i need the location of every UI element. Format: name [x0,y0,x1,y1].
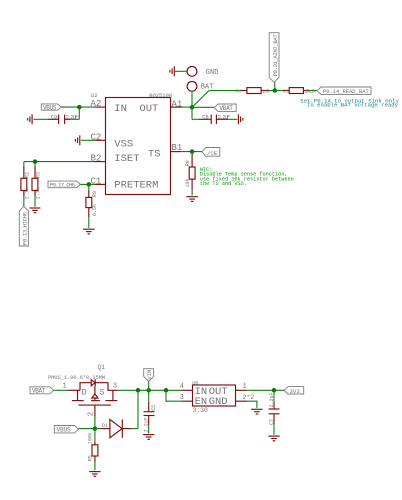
flag P0.14_READ_BAT [317,87,371,95]
svg-text:D: D [82,388,87,398]
wire A1 to node [181,106,192,108]
pin 1 OUT [236,383,247,391]
svg-text:2.7k: 2.7k [36,187,42,199]
wire OUT to 3V3 [247,389,285,391]
flag VBAT [192,104,236,112]
diode D1 [95,419,138,437]
svg-text:C1: C1 [90,177,101,187]
svg-text:2: 2 [87,412,95,416]
wire Q1 pin3 to U6 [118,389,181,391]
wire BAT sense row [209,90,241,92]
ground at U6 [251,409,262,414]
node junction gate [93,426,98,431]
wire diagonal A1 up right [192,91,209,108]
svg-text:2.2uF: 2.2uF [66,114,79,120]
ground at C9 (left-pointing) [28,114,32,124]
node junction B2 [33,159,38,164]
capacitor C8 [192,107,237,124]
svg-text:100k: 100k [88,432,94,444]
resistor R6 10k [283,88,316,95]
svg-text:1: 1 [63,382,67,390]
ground at pin C2 (left-pointing) [75,135,94,145]
wire VBUS to gate node [78,428,95,430]
svg-text:3V3: 3V3 [290,388,301,395]
svg-text:R8: R8 [185,160,191,166]
svg-text:IN: IN [114,103,127,115]
svg-text:R2: R2 [24,172,30,178]
node junction diode riser [136,388,141,393]
node junction 3V3 [272,388,277,393]
testpoint GND circle [175,66,218,77]
svg-text:VBUS: VBUS [57,427,71,434]
note Set P0.14 text [300,97,399,108]
svg-text:3: 3 [180,394,184,402]
svg-text:2.2uF: 2.2uF [269,392,275,407]
svg-text:C2: C2 [90,132,101,142]
svg-text:/CE: /CE [207,150,218,157]
capacitor C7 2.2uF [269,390,280,435]
svg-text:ISET: ISET [114,153,139,165]
pin C2 [90,132,105,142]
node junction A1 [190,105,195,110]
node junction AIN7 [273,88,278,93]
flag 3V3 [284,387,304,395]
svg-text:C7: C7 [269,419,275,425]
pin 4 IN [180,383,193,391]
svg-text:P0.17_CHG: P0.17_CHG [50,182,75,189]
svg-text:R4: R4 [235,89,241,95]
svg-text:the TS and VSS.: the TS and VSS. [200,181,247,187]
ground below C5 [143,435,154,440]
svg-text:OUT: OUT [139,103,158,115]
svg-text:R5: R5 [88,455,94,461]
svg-text:2.7k: 2.7k [24,187,30,199]
svg-text:10k_1%: 10k_1% [304,89,315,95]
svg-text:VBUS: VBUS [43,104,57,111]
svg-text:VSS: VSS [114,138,133,150]
wire P0.17_CHG to pin C1 [80,183,94,185]
svg-text:2.2uF: 2.2uF [218,114,231,120]
node junction C1 [87,182,92,187]
transistor Q1 PMOS [48,364,118,417]
flag VIN (vertical, points down) [144,369,154,391]
flag VBUS [41,104,61,111]
pin 3 EN [180,394,193,402]
svg-text:3: 3 [113,382,117,390]
resistor R9 6.5k [86,184,98,228]
pin B1 [171,143,183,153]
wire B2 net [24,162,95,168]
svg-text:C9: C9 [51,114,57,120]
svg-text:P0.31_AIN7_BAT: P0.31_AIN7_BAT [272,34,279,77]
flag /CE [202,148,220,158]
pin A1 [171,99,183,109]
svg-text:4: 4 [180,383,184,391]
op-amp U2 BQ25100 body [106,98,171,195]
wire EN tie down [166,390,182,401]
flag P0.17_CHG [48,181,80,188]
svg-text:U6: U6 [192,380,198,386]
node junction EN tie [164,388,169,393]
ground below R5 [89,472,100,477]
svg-text:PMOS_1.00.6*0.35MM: PMOS_1.00.6*0.35MM [48,375,105,381]
note NTC text [200,167,294,187]
svg-text:D1: D1 [102,423,108,429]
pin B2 [90,154,105,164]
svg-text:R3: R3 [36,172,42,178]
resistor R8 10k [185,152,195,196]
svg-text:6.5k: 6.5k [92,204,98,216]
wire U6 GND to ground [247,401,257,408]
resistor R3 2.7k [32,167,42,207]
pin 2*2 GND [236,394,255,401]
svg-text:A1: A1 [172,99,183,109]
ground below C7 [268,436,279,441]
svg-text:1.5k: 1.5k [262,89,270,95]
node junction B1 [190,149,195,154]
svg-text:Q1: Q1 [98,364,106,371]
node junction A2/C9 [77,105,82,110]
ground at GND testpoint (left-pointing) [170,66,174,76]
svg-text:A2: A2 [90,99,101,109]
flag VBAT bottom [30,387,54,395]
svg-text:P0.13_HICHG: P0.13_HICHG [21,212,28,245]
svg-text:10k: 10k [185,178,191,187]
ground below R3 [30,208,41,213]
resistor R4 1.5k [235,88,270,95]
wire VBUS to pin A2 [61,106,94,108]
svg-text:GND: GND [209,396,228,408]
ground at C8 (right-pointing) [238,114,242,124]
wire gate riser [94,417,96,429]
svg-text:2.2uF: 2.2uF [144,417,150,432]
svg-text:to enable BAT voltage ready: to enable BAT voltage ready [307,102,399,109]
svg-text:B2: B2 [90,154,101,164]
svg-text:GND: GND [206,69,219,77]
svg-text:VIN: VIN [146,370,153,380]
wire VBAT to Q1 pin1 [54,389,68,391]
resistor R2 2.7k [21,167,31,207]
flag P0.13_HICHG (vertical, points up) [19,206,28,246]
capacitor C9 [34,107,80,124]
testpoint BAT circle [187,81,213,107]
node junction VIN [146,388,151,393]
capacitor C5 2.2uF [144,390,157,433]
svg-text:TS: TS [148,148,161,160]
wire between R4 and R6 [268,90,284,92]
svg-text:C5: C5 [151,405,157,411]
svg-text:BQ25100: BQ25100 [149,92,173,99]
flag P0.31_AIN7_BAT (vertical, points down) [269,33,279,91]
ground below R8 [186,197,198,202]
wire B1 to /CE [181,151,202,153]
flag VBUS bottom [54,426,78,434]
svg-text:R9: R9 [92,191,98,197]
resistor R5 100k [88,429,98,471]
ground below R9 [83,229,95,234]
wire R6 to flag [310,90,317,92]
svg-text:B1: B1 [172,143,183,153]
pin C1 [90,177,105,187]
svg-text:S: S [100,388,105,398]
svg-text:PRETERM: PRETERM [114,180,158,192]
svg-text:VBAT: VBAT [32,388,46,395]
svg-text:2*2: 2*2 [243,394,255,401]
wire diode riser to VIN node [137,390,139,428]
voltage regulator U6 body [193,385,236,408]
svg-text:1: 1 [243,383,247,391]
svg-text:C8: C8 [202,114,208,120]
svg-text:U2: U2 [91,92,98,99]
svg-text:P0.14_READ_BAT: P0.14_READ_BAT [323,88,370,95]
svg-text:R6: R6 [283,89,289,95]
svg-text:VBAT: VBAT [220,105,234,112]
pin A2 [90,99,105,109]
svg-text:3.30: 3.30 [193,407,209,414]
